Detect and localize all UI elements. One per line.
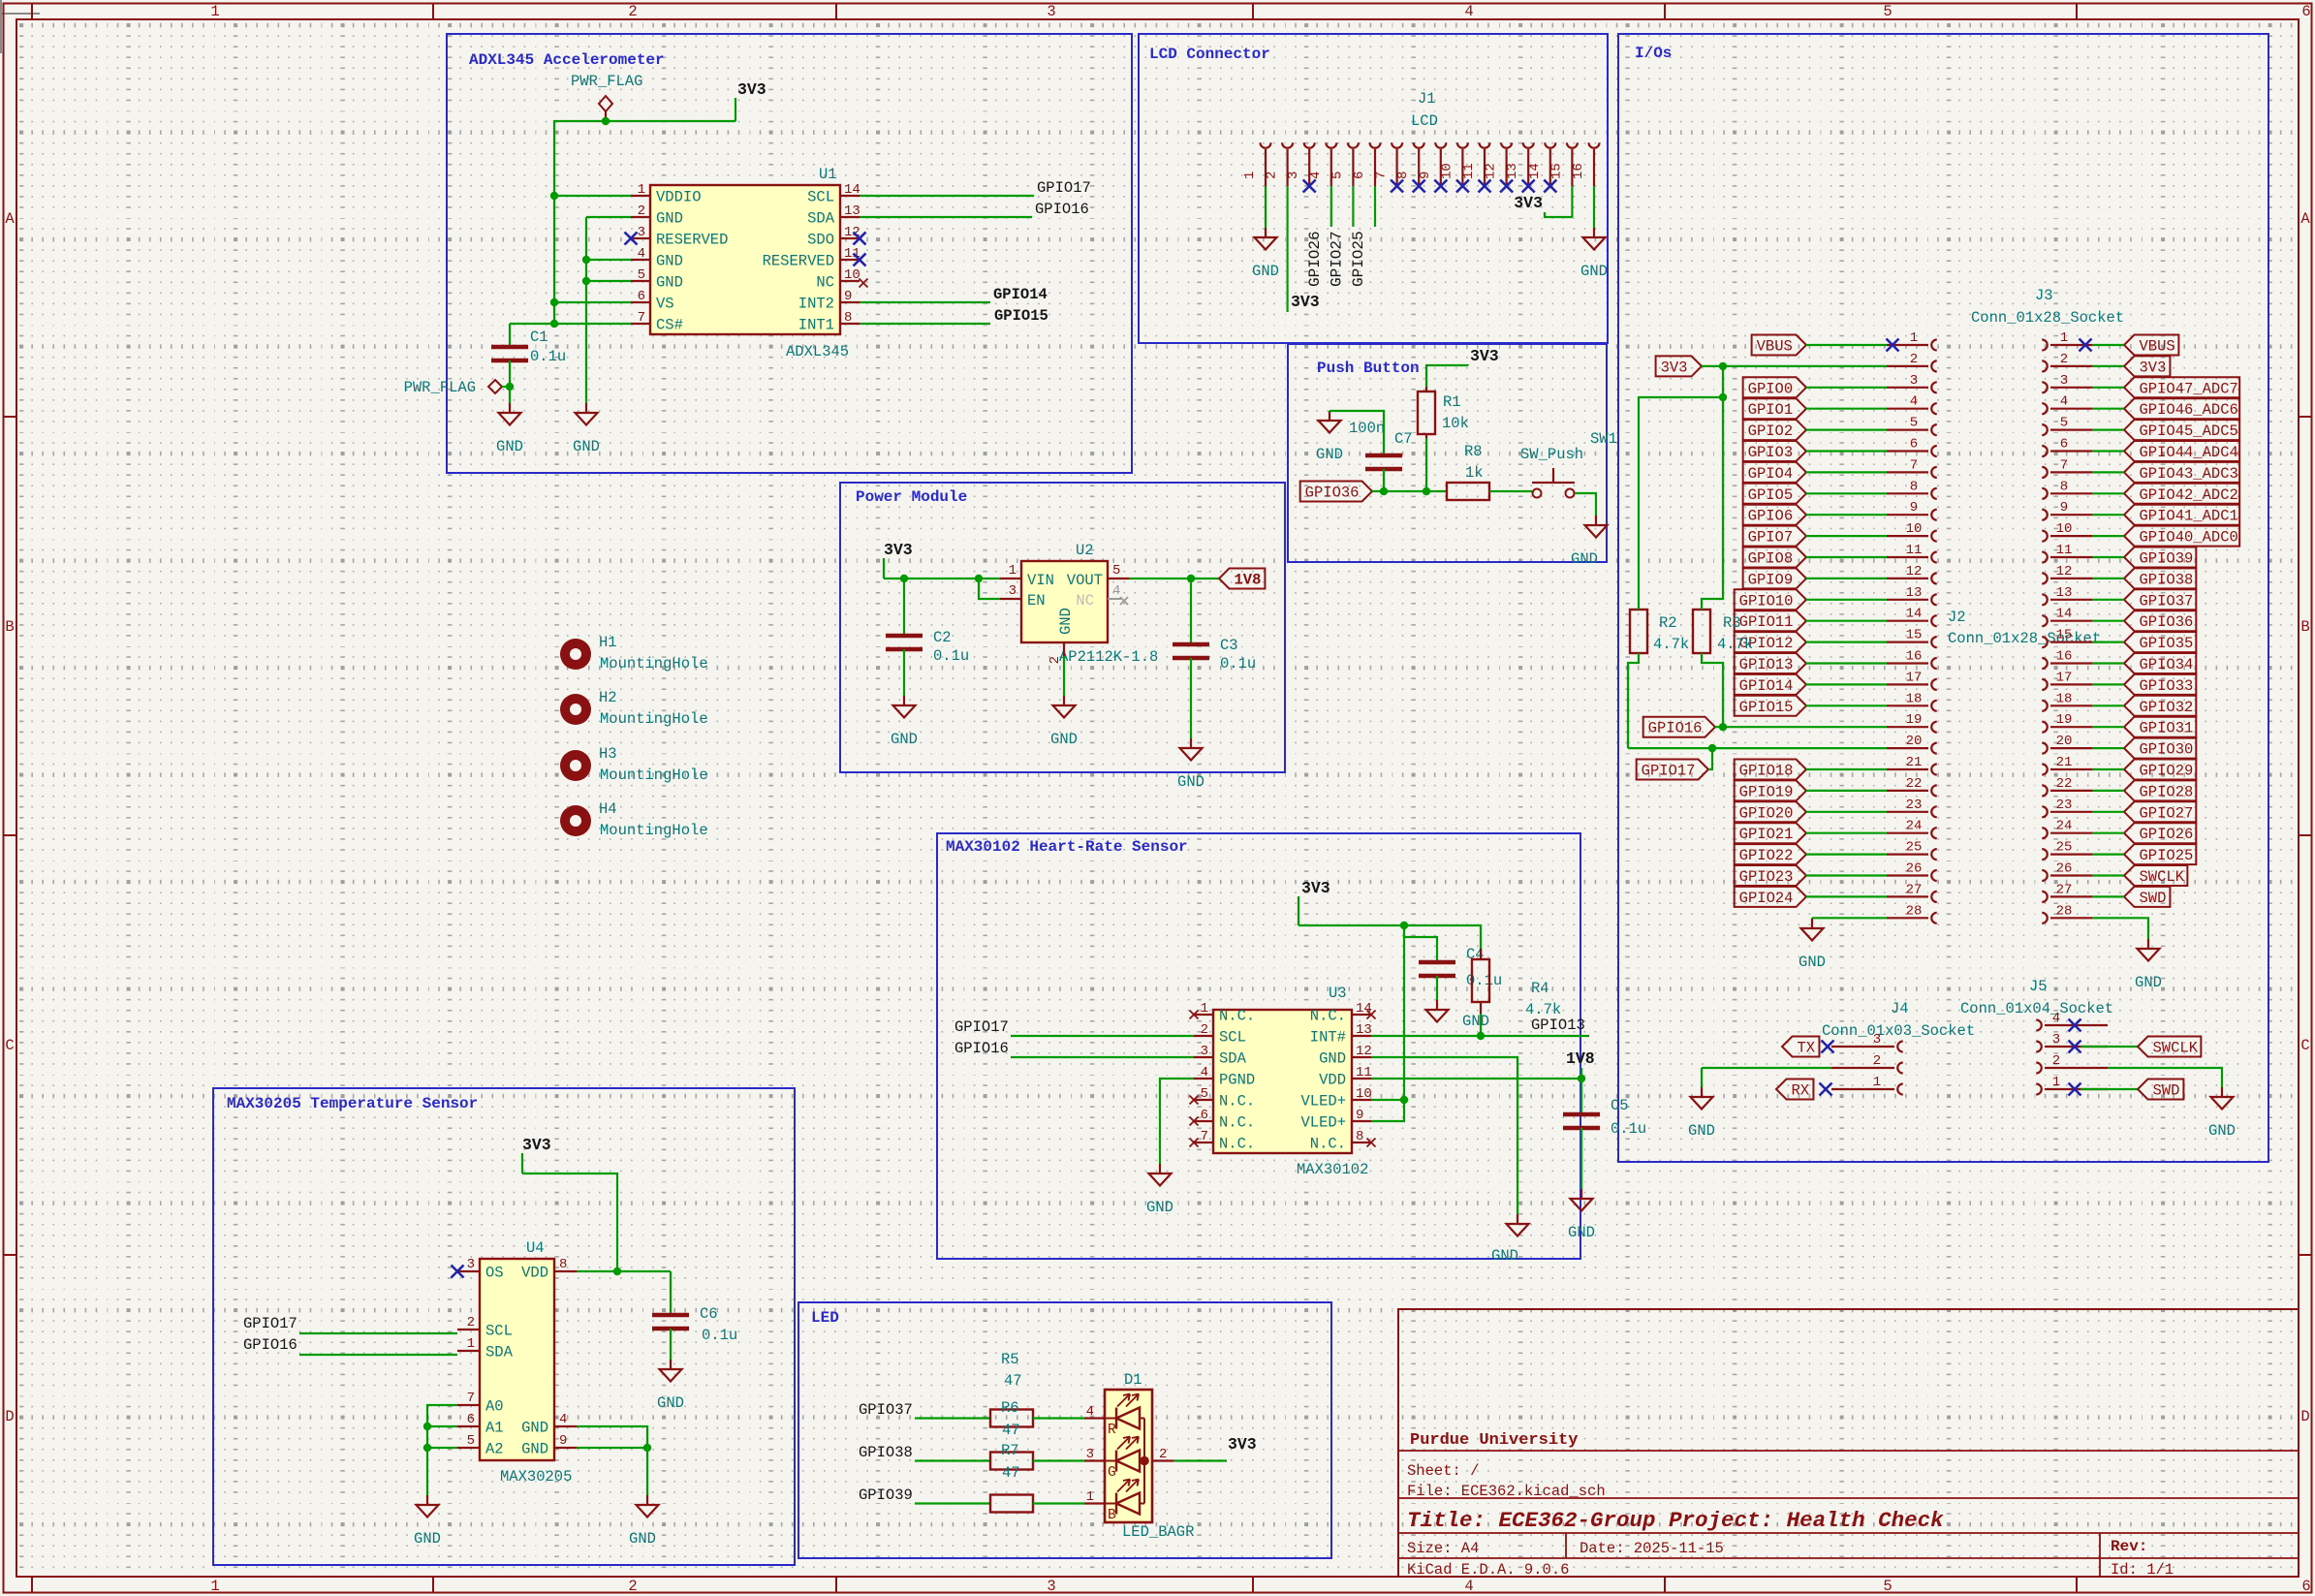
- svg-text:27: 27: [1906, 882, 1923, 897]
- svg-text:GPIO16: GPIO16: [243, 1336, 297, 1354]
- svg-text:N.C.: N.C.: [1310, 1008, 1346, 1025]
- svg-text:GPIO16: GPIO16: [1648, 720, 1703, 737]
- wire VS: [554, 301, 631, 303]
- svg-text:4: 4: [1086, 1404, 1094, 1420]
- svg-text:R6: R6: [1001, 1399, 1019, 1417]
- svg-text:5: 5: [1330, 172, 1345, 179]
- svg-text:OS: OS: [485, 1265, 504, 1282]
- wire GPIO44_ADC4 J3: [2092, 450, 2124, 452]
- wire SW1 to gnd: [1575, 493, 1596, 516]
- resistor R5: [990, 1351, 1033, 1513]
- svg-text:GND: GND: [1319, 1050, 1346, 1068]
- no-connect pin12: [854, 233, 866, 245]
- svg-text:GPIO25: GPIO25: [1350, 231, 1367, 287]
- wire 3V3 top: [1298, 925, 1481, 949]
- junction: [1719, 362, 1727, 370]
- svg-text:3: 3: [467, 1257, 475, 1272]
- svg-text:Purdue University: Purdue University: [1410, 1431, 1578, 1450]
- svg-text:3: 3: [1201, 1044, 1208, 1059]
- svg-text:GND: GND: [521, 1420, 548, 1437]
- svg-text:GPIO7: GPIO7: [1748, 529, 1794, 547]
- global label SWD (J5): [2138, 1080, 2183, 1100]
- svg-text:VDD: VDD: [521, 1265, 548, 1282]
- wire GPIO6: [1806, 514, 1887, 516]
- svg-text:SW1: SW1: [1590, 430, 1617, 448]
- global label GPIO12 (J2): [1735, 632, 1806, 652]
- svg-text:9: 9: [1910, 500, 1918, 516]
- svg-text:17: 17: [2056, 670, 2073, 685]
- ground (C2): [891, 696, 918, 748]
- svg-text:7: 7: [467, 1391, 475, 1406]
- wire GPIO26 J3: [2092, 832, 2124, 834]
- svg-text:GPIO27: GPIO27: [2140, 804, 2194, 822]
- junction: [1187, 575, 1195, 582]
- svg-text:SDO: SDO: [807, 232, 834, 249]
- wire GPIO8: [1806, 556, 1887, 558]
- svg-text:1: 1: [1086, 1489, 1094, 1505]
- wire GPIO36 node: [1372, 490, 1447, 492]
- junction: [1423, 487, 1430, 495]
- global label GPIO46_ADC6 (J3): [2124, 398, 2239, 419]
- junction: [550, 320, 558, 328]
- ground (C3): [1177, 738, 1204, 791]
- svg-text:11: 11: [1461, 163, 1477, 179]
- wire GPIO12: [1806, 641, 1887, 642]
- junction: [423, 1423, 431, 1430]
- wire GPIO15: [1806, 704, 1887, 706]
- wire to gnd1: [509, 387, 511, 403]
- wire J1-15 3V3: [1545, 186, 1572, 217]
- svg-text:H4: H4: [599, 800, 617, 818]
- wire SWCLK J3: [2092, 874, 2124, 876]
- wire C7 to node: [1383, 469, 1385, 491]
- global label GPIO30 (J3): [2124, 738, 2196, 759]
- svg-text:4: 4: [1308, 172, 1324, 179]
- svg-text:10: 10: [1906, 521, 1923, 537]
- wire J1-16 gnd: [1593, 186, 1595, 228]
- junction: [1708, 744, 1716, 752]
- svg-text:GND: GND: [657, 1394, 684, 1412]
- mounting hole H3: [560, 745, 708, 784]
- svg-text:GND: GND: [1316, 446, 1343, 463]
- global label GPIO24 (J2): [1735, 887, 1806, 907]
- svg-text:Conn_01x28_Socket: Conn_01x28_Socket: [1971, 309, 2124, 327]
- wire GPIO34 J3: [2092, 662, 2124, 664]
- svg-text:VDDIO: VDDIO: [656, 189, 702, 206]
- svg-text:3V3: 3V3: [1291, 293, 1320, 311]
- ground (J5): [2208, 1087, 2236, 1140]
- ground (C1): [496, 403, 523, 455]
- svg-text:VS: VS: [656, 296, 674, 313]
- svg-text:27: 27: [2056, 882, 2073, 897]
- wire J1-2 3V3: [1286, 186, 1288, 312]
- svg-text:GPIO9: GPIO9: [1748, 571, 1794, 588]
- svg-text:1V8: 1V8: [1566, 1049, 1595, 1068]
- label GPIO16 (U1): [1035, 201, 1089, 218]
- no-connect J1 pin 13: [1522, 180, 1535, 193]
- label GPIO39: [859, 1486, 913, 1504]
- svg-text:C5: C5: [1611, 1097, 1629, 1114]
- svg-text:14: 14: [2056, 607, 2073, 622]
- ground (J1 pin1): [1252, 228, 1279, 280]
- svg-text:A1: A1: [485, 1420, 504, 1437]
- svg-text:J4: J4: [1891, 1000, 1909, 1017]
- wire 3V3 to VDD: [522, 1174, 617, 1271]
- global label GPIO45_ADC5 (J3): [2124, 420, 2239, 440]
- no-connect J1 pin 8: [1413, 180, 1425, 193]
- svg-text:PWR_FLAG: PWR_FLAG: [571, 73, 642, 90]
- svg-text:A0: A0: [485, 1398, 504, 1416]
- svg-text:16: 16: [2056, 649, 2073, 665]
- svg-text:20: 20: [1906, 734, 1923, 749]
- global label GPIO42_ADC2 (J3): [2124, 484, 2239, 504]
- junction: [1719, 723, 1727, 731]
- svg-text:GPIO23: GPIO23: [1739, 868, 1794, 886]
- svg-text:1: 1: [1009, 563, 1017, 579]
- svg-text:R5: R5: [1001, 1351, 1019, 1368]
- svg-text:2: 2: [1910, 352, 1918, 367]
- resistor R6: [990, 1399, 1033, 1439]
- svg-text:7: 7: [2060, 457, 2068, 473]
- svg-text:MountingHole: MountingHole: [600, 767, 708, 784]
- svg-text:GPIO38: GPIO38: [859, 1444, 913, 1461]
- svg-text:47: 47: [1002, 1464, 1020, 1482]
- global label 3V3 (I/O): [1656, 356, 1702, 376]
- svg-text:6: 6: [467, 1412, 475, 1427]
- svg-text:12: 12: [1356, 1044, 1372, 1059]
- ground (J1 pin16): [1580, 228, 1608, 280]
- power 3V3 (push button): [1468, 347, 1499, 365]
- svg-text:1: 1: [1242, 172, 1258, 179]
- svg-text:LCD Connector: LCD Connector: [1149, 46, 1270, 63]
- svg-text:SCL: SCL: [807, 189, 834, 206]
- svg-text:KiCad E.D.A. 9.0.6: KiCad E.D.A. 9.0.6: [1407, 1561, 1569, 1579]
- no-connect J1 pin 14: [1544, 180, 1556, 193]
- svg-text:GPIO6: GPIO6: [1748, 508, 1794, 525]
- svg-text:GPIO42_ADC2: GPIO42_ADC2: [2140, 486, 2238, 504]
- svg-text:16: 16: [1571, 163, 1586, 179]
- ground (C5): [1568, 1189, 1595, 1241]
- svg-text:PWR_FLAG: PWR_FLAG: [404, 379, 476, 396]
- wire GPIO22: [1806, 853, 1887, 855]
- wire SDA: [860, 216, 1032, 218]
- svg-text:GPIO14: GPIO14: [993, 286, 1048, 303]
- junction: [423, 1444, 431, 1452]
- wire GPIO47_ADC7 J3: [2092, 387, 2124, 389]
- section ADXL345 Accelerometer: [447, 34, 1132, 473]
- svg-text:MAX30102 Heart-Rate Sensor: MAX30102 Heart-Rate Sensor: [946, 838, 1188, 856]
- svg-text:N.C.: N.C.: [1219, 1008, 1255, 1025]
- global label GPIO6 (J2): [1743, 505, 1806, 525]
- svg-text:GND: GND: [891, 731, 918, 748]
- svg-text:12: 12: [2056, 564, 2073, 579]
- svg-text:23: 23: [2056, 798, 2073, 813]
- junction: [1380, 487, 1388, 495]
- wire GPIO39: [915, 1502, 990, 1504]
- junction: [1719, 393, 1727, 401]
- wire GPIO13: [1806, 662, 1887, 664]
- global label GPIO14 (J2): [1735, 674, 1806, 695]
- svg-text:C: C: [2300, 1037, 2309, 1054]
- svg-text:GND: GND: [2135, 974, 2162, 991]
- power 3V3 (power module): [884, 541, 913, 579]
- svg-text:28: 28: [1906, 903, 1923, 919]
- op-amp U1 ADXL345: [631, 166, 860, 360]
- svg-text:13: 13: [1505, 163, 1520, 179]
- wire GPIO5: [1806, 492, 1887, 494]
- svg-text:GPIO1: GPIO1: [1748, 401, 1794, 419]
- wire GPIO25 J3: [2092, 853, 2124, 855]
- wire J5 gnd: [2108, 1068, 2222, 1087]
- junction: [582, 256, 590, 264]
- sensor U3 MAX30102: [1194, 985, 1372, 1178]
- svg-text:22: 22: [1906, 776, 1923, 792]
- global label GPIO10 (J2): [1735, 589, 1806, 610]
- svg-text:8: 8: [2060, 479, 2068, 494]
- global label GPIO3 (J2): [1743, 441, 1806, 461]
- no-connect J1 pin 9: [1434, 180, 1447, 193]
- wire to C5: [1580, 1079, 1582, 1114]
- junction: [1400, 1096, 1408, 1104]
- wire SCL U4: [299, 1332, 457, 1334]
- svg-text:6: 6: [1352, 172, 1367, 179]
- svg-text:1: 1: [1201, 1001, 1208, 1017]
- connector J4 Conn_01x03_Socket: [1822, 1000, 1975, 1095]
- junction: [582, 277, 590, 285]
- svg-text:6: 6: [2060, 437, 2068, 453]
- no-connect J5 pin3: [2069, 1041, 2081, 1053]
- svg-text:Rev:: Rev:: [2111, 1538, 2147, 1555]
- svg-text:GND: GND: [1462, 1013, 1489, 1030]
- svg-text:PGND: PGND: [1219, 1072, 1255, 1089]
- global label GPIO43_ADC3 (J3): [2124, 462, 2239, 483]
- svg-text:R2: R2: [1659, 614, 1677, 632]
- svg-text:5: 5: [1910, 416, 1918, 431]
- svg-text:7: 7: [638, 310, 645, 326]
- resistor R8: [1447, 443, 1489, 500]
- wire R8 to SW1: [1489, 490, 1532, 492]
- global label GPIO41_ADC1 (J3): [2124, 505, 2239, 525]
- wire C3 gnd: [1190, 658, 1192, 738]
- section MAX30205 Temperature Sensor: [213, 1088, 795, 1565]
- label GPIO26: [1306, 231, 1324, 287]
- global label GPIO2 (J2): [1743, 420, 1806, 440]
- svg-text:GND: GND: [521, 1441, 548, 1458]
- svg-text:GPIO36: GPIO36: [1305, 485, 1360, 502]
- no-connect pin3: [625, 233, 638, 245]
- svg-text:SDA: SDA: [1219, 1050, 1247, 1068]
- svg-text:GPIO21: GPIO21: [1739, 826, 1794, 843]
- global label GPIO4 (J2): [1743, 462, 1806, 483]
- wire GPIO30 J3: [2092, 747, 2124, 749]
- svg-text:GND: GND: [1146, 1199, 1173, 1216]
- svg-text:3V3: 3V3: [1661, 359, 1688, 376]
- label GPIO14: [993, 286, 1048, 303]
- section MAX30102 Heart-Rate Sensor: [937, 833, 1580, 1259]
- svg-text:SW_Push: SW_Push: [1520, 446, 1583, 463]
- svg-text:2: 2: [1048, 656, 1063, 664]
- svg-text:R1: R1: [1443, 393, 1461, 411]
- svg-text:13: 13: [844, 203, 860, 219]
- wire R4 bottom: [1480, 1014, 1482, 1036]
- wire A gnd: [426, 1448, 428, 1495]
- wire INT1: [860, 323, 990, 325]
- svg-text:1: 1: [210, 1578, 219, 1595]
- wire VDDIO: [554, 195, 631, 197]
- power 3V3 (MAX30205): [522, 1136, 551, 1174]
- svg-text:4: 4: [1464, 3, 1473, 20]
- svg-text:2: 2: [638, 203, 645, 219]
- global label TX: [1782, 1037, 1819, 1057]
- svg-text:15: 15: [1906, 628, 1923, 643]
- svg-text:J5: J5: [2029, 978, 2048, 995]
- global label GPIO31 (J3): [2124, 717, 2196, 737]
- svg-text:N.C.: N.C.: [1310, 1136, 1346, 1153]
- wire to C4: [1404, 925, 1437, 962]
- wire VBUS: [1806, 344, 1887, 346]
- wire EN: [979, 579, 1000, 599]
- unconnected U3 left pin 5: [1190, 1096, 1199, 1105]
- svg-text:14: 14: [844, 182, 860, 198]
- svg-text:C: C: [5, 1037, 14, 1054]
- wire GPIO46_ADC6 J3: [2092, 408, 2124, 410]
- svg-text:6: 6: [1910, 437, 1918, 453]
- wire 3V3 down: [1722, 366, 1724, 397]
- wire C5 gnd: [1580, 1128, 1582, 1189]
- svg-text:20: 20: [2056, 734, 2073, 749]
- global label GPIO16 (I/O): [1643, 717, 1715, 737]
- svg-text:J2: J2: [1948, 609, 1966, 626]
- svg-text:1: 1: [467, 1336, 475, 1352]
- svg-text:1k: 1k: [1465, 464, 1484, 482]
- svg-text:D: D: [2300, 1408, 2309, 1425]
- svg-text:8: 8: [1910, 479, 1918, 494]
- wire GPIO19: [1806, 790, 1887, 792]
- svg-text:4.7k: 4.7k: [1653, 636, 1689, 653]
- section LCD Connector: [1139, 34, 1608, 343]
- wire GPIO23: [1806, 874, 1887, 876]
- svg-text:4: 4: [1112, 583, 1120, 599]
- regulator U2 AP2112K-1.8: [1000, 542, 1158, 666]
- power 3V3 (LED): [1228, 1435, 1257, 1454]
- no-connect J2 pin1: [1887, 339, 1899, 352]
- svg-text:GPIO40_ADC0: GPIO40_ADC0: [2140, 529, 2238, 547]
- svg-text:0.1u: 0.1u: [1611, 1120, 1646, 1138]
- wire GPIO24: [1806, 895, 1887, 897]
- global label GPIO44_ADC4 (J3): [2124, 441, 2239, 461]
- svg-text:GND: GND: [1571, 550, 1598, 568]
- wire GPIO37: [915, 1417, 990, 1419]
- svg-text:Conn_01x04_Socket: Conn_01x04_Socket: [1960, 1000, 2113, 1017]
- svg-text:N.C.: N.C.: [1219, 1114, 1255, 1132]
- svg-text:GPIO15: GPIO15: [994, 307, 1048, 325]
- svg-text:ADXL345 Accelerometer: ADXL345 Accelerometer: [469, 51, 665, 69]
- svg-text:VLED+: VLED+: [1300, 1114, 1346, 1132]
- svg-text:5: 5: [2060, 416, 2068, 431]
- svg-text:2: 2: [1201, 1022, 1208, 1038]
- wire U3 GND pin: [1371, 1057, 1517, 1214]
- svg-text:10: 10: [1356, 1086, 1372, 1102]
- wire A0A1A2: [427, 1405, 457, 1448]
- svg-text:100n: 100n: [1349, 420, 1385, 437]
- svg-text:13: 13: [1906, 585, 1923, 601]
- wire R1 to node: [1425, 438, 1427, 491]
- wire GPIO16 row: [1715, 726, 1887, 728]
- wire GPIO37 J3: [2092, 599, 2124, 601]
- wire GPIO18: [1806, 768, 1887, 770]
- capacitor C2: [886, 629, 969, 665]
- svg-text:3: 3: [1009, 583, 1017, 599]
- svg-text:GPIO19: GPIO19: [1739, 783, 1794, 800]
- wire R7 to D1: [1033, 1459, 1084, 1461]
- svg-text:GPIO32: GPIO32: [2140, 699, 2194, 716]
- svg-text:N.C.: N.C.: [1219, 1136, 1255, 1153]
- svg-text:C6: C6: [700, 1305, 718, 1323]
- wire J1-1 gnd: [1265, 186, 1267, 228]
- wire GND9: [577, 1447, 647, 1449]
- svg-text:9: 9: [844, 289, 852, 304]
- global label GPIO1 (J2): [1743, 398, 1806, 419]
- svg-text:INT1: INT1: [798, 317, 834, 334]
- svg-text:2: 2: [628, 3, 637, 20]
- svg-text:GND: GND: [629, 1530, 656, 1548]
- svg-text:18: 18: [1906, 691, 1923, 706]
- ground (U3 gnd): [1491, 1214, 1528, 1265]
- global label GPIO36: [1300, 482, 1372, 502]
- svg-text:GND: GND: [1050, 731, 1078, 748]
- svg-text:ADXL345: ADXL345: [786, 343, 849, 360]
- svg-text:C2: C2: [933, 629, 952, 646]
- section Push Button: [1288, 344, 1607, 562]
- no-connect pin11: [854, 254, 866, 266]
- capacitor C3: [1173, 637, 1256, 673]
- global label GPIO17 (I/O): [1637, 760, 1708, 780]
- svg-text:1: 1: [2060, 330, 2068, 346]
- wire SCL U3: [1011, 1035, 1194, 1037]
- svg-text:MAX30205: MAX30205: [500, 1468, 572, 1486]
- svg-text:MAX30102: MAX30102: [1297, 1161, 1368, 1178]
- svg-text:47: 47: [1002, 1422, 1020, 1439]
- svg-text:Conn_01x28_Socket: Conn_01x28_Socket: [1948, 630, 2101, 647]
- label GPIO17 (U1): [1037, 179, 1091, 197]
- label GPIO37: [859, 1401, 913, 1419]
- title block: [1398, 1309, 2299, 1579]
- svg-text:Id: 1/1: Id: 1/1: [2111, 1561, 2174, 1579]
- svg-text:VBUS: VBUS: [2140, 338, 2175, 356]
- wire to R2: [1639, 397, 1723, 610]
- svg-text:GND: GND: [1688, 1122, 1715, 1140]
- svg-text:H1: H1: [599, 634, 617, 651]
- wire 3V3 to R1: [1426, 365, 1468, 387]
- svg-text:1: 1: [2052, 1075, 2060, 1090]
- svg-text:LED_BAGR: LED_BAGR: [1122, 1523, 1194, 1541]
- svg-text:RESERVED: RESERVED: [763, 253, 834, 270]
- capacitor C1: [491, 329, 566, 365]
- wire J4 gnd: [1701, 1068, 1703, 1087]
- svg-text:4: 4: [2060, 394, 2068, 410]
- svg-text:8: 8: [559, 1257, 567, 1272]
- svg-text:21: 21: [1906, 755, 1923, 770]
- svg-text:47: 47: [1004, 1372, 1022, 1390]
- label GPIO27: [1328, 231, 1345, 287]
- svg-text:SCL: SCL: [1219, 1029, 1246, 1047]
- svg-text:MountingHole: MountingHole: [600, 655, 708, 673]
- svg-text:GPIO39: GPIO39: [2140, 550, 2194, 568]
- svg-text:GPIO8: GPIO8: [1748, 550, 1794, 568]
- wire J2 gnd drop: [1811, 917, 1813, 920]
- wire to R3: [1702, 397, 1723, 610]
- global label GPIO28 (J3): [2124, 780, 2196, 800]
